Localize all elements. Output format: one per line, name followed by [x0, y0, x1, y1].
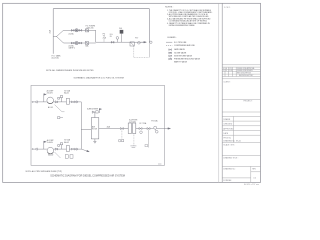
- valve right chain 2: [147, 128, 154, 130]
- label filter right: [140, 122, 148, 125]
- gauge G1: [138, 42, 141, 45]
- svg-text:PRESSURE REDUCING VALVE: PRESSURE REDUCING VALVE: [174, 58, 201, 61]
- relief valve top chain: [58, 96, 63, 102]
- page border frame: [3, 3, 261, 182]
- arrow to engine: [140, 41, 146, 43]
- tick at frame left bottom: [158, 163, 161, 165]
- title block approvals rows: [222, 112, 260, 143]
- title block sheet label: [224, 7, 231, 9]
- footer print note: [244, 183, 259, 186]
- dryer drain funnel: [130, 146, 136, 147]
- label relief top: [64, 89, 71, 94]
- strainer S2 chain2: [85, 42, 88, 45]
- gauge right chain: [154, 126, 165, 133]
- legend symbol check valve: [169, 55, 172, 57]
- svg-text:NON RETURN VALVE: NON RETURN VALVE: [174, 54, 193, 57]
- label AC2: [47, 139, 55, 144]
- svg-text:REVISION HISTORY: REVISION HISTORY: [239, 75, 253, 77]
- header vertical schematic 2: [80, 102, 82, 149]
- svg-text:0.0: 0.0: [253, 178, 256, 180]
- legend block: [167, 37, 200, 63]
- svg-text:NOTES :: NOTES :: [165, 6, 173, 8]
- label from tank vertical: [48, 29, 51, 33]
- svg-text:F.O. PIPE LINE: F.O. PIPE LINE: [174, 42, 187, 44]
- valve top chain right: [69, 101, 81, 103]
- svg-text:CLIENT :: CLIENT :: [223, 81, 231, 83]
- svg-text:A.RECEIVER: A.RECEIVER: [87, 107, 99, 110]
- legend symbol gate valve: [169, 49, 172, 51]
- legend symbol globe valve: [169, 52, 172, 54]
- dryer top chain: [58, 98, 70, 104]
- svg-text:PG 30A: PG 30A: [151, 119, 158, 122]
- svg-text:DATE: DATE: [223, 132, 228, 135]
- outlet line right chain: [99, 128, 121, 130]
- branch to tank: [81, 128, 91, 130]
- svg-text:2x100%: 2x100%: [47, 142, 54, 144]
- intake bottom chain: [32, 148, 47, 150]
- drain diagonal bottom chain: [55, 152, 61, 158]
- chain 1 line: [64, 30, 96, 42]
- label tank top: [87, 107, 99, 110]
- svg-text:RCVR: RCVR: [92, 129, 98, 131]
- label chain1 left: [68, 32, 74, 35]
- svg-text:DRAWING No: DRAWING No: [223, 139, 234, 142]
- svg-text:SAFETY VALVE: SAFETY VALVE: [174, 61, 188, 64]
- drain arrow after junction: [81, 149, 89, 152]
- svg-text:SK-01: SK-01: [236, 140, 241, 142]
- caption schematic 2: [50, 174, 125, 177]
- valve V4 chain2: [79, 42, 82, 44]
- svg-text:2x100%: 2x100%: [47, 93, 54, 95]
- trap below valve: [121, 130, 123, 139]
- title block left boundary: [218, 3, 220, 182]
- dryer drain dashed: [133, 134, 135, 146]
- note text schematic 2: [26, 170, 63, 173]
- notes block: [165, 6, 213, 26]
- label compressor C1: [48, 106, 53, 109]
- valve V3 chain2: [71, 42, 74, 44]
- flag node engine: [150, 41, 152, 43]
- relief valve bottom chain: [58, 143, 63, 149]
- svg-text:CHECKED: CHECKED: [223, 124, 232, 126]
- svg-text:2x25A: 2x25A: [68, 32, 74, 35]
- svg-text:FORM A3: FORM A3: [223, 179, 231, 182]
- frame schematic 2: [31, 85, 165, 165]
- strainer S1 chain1: [85, 29, 88, 32]
- check valve top chain: [54, 101, 58, 103]
- svg-text:NOTE: ALL PIPE SIZES ARE IN MM: NOTE: ALL PIPE SIZES ARE IN MM (TYP): [26, 170, 63, 173]
- filter F1 on line: [130, 42, 134, 46]
- svg-text:AD-01: AD-01: [64, 92, 69, 95]
- svg-text:SCALE : NTS: SCALE : NTS: [223, 144, 235, 147]
- title block scale cell: [222, 142, 260, 144]
- title block client cell: [222, 78, 260, 80]
- dashed drain line bottom left: [145, 130, 149, 148]
- legend symbol relief valve: [169, 58, 172, 60]
- tank drain: [94, 139, 97, 143]
- compressor C1: [47, 97, 54, 104]
- tank top assembly: [92, 108, 101, 117]
- label pumps chain1: [86, 26, 96, 30]
- flag bottom chain: [44, 141, 46, 149]
- chain 2 main line: [64, 41, 147, 44]
- label F.O.T.: [52, 54, 62, 59]
- svg-text:12.1: 12.1: [229, 68, 232, 70]
- valve V2 chain1: [79, 29, 82, 31]
- pipe return line top: [53, 9, 149, 43]
- title block inner boundary: [221, 3, 223, 182]
- svg-text:AC-02: AC-02: [48, 154, 53, 157]
- svg-text:DRAWING TITLE :: DRAWING TITLE :: [223, 156, 238, 159]
- svg-text:GATE V.: GATE V.: [68, 46, 75, 49]
- label outlet: [107, 125, 111, 128]
- gauge labels leaders: [103, 39, 105, 42]
- label DG: [119, 28, 123, 30]
- title block revision table: [222, 65, 260, 77]
- svg-text:SCHEMATIC DIAGRAM FOR DIESEL C: SCHEMATIC DIAGRAM FOR DIESEL COMPRESSED …: [50, 174, 125, 177]
- sensing line vertical: [148, 42, 150, 57]
- svg-text:1: 1: [223, 70, 224, 72]
- svg-text:AD-02: AD-02: [64, 141, 69, 144]
- check valve bottom chain: [54, 148, 58, 150]
- instrument FM1: [116, 37, 119, 43]
- label gauges stack: [103, 34, 107, 40]
- label chain2 below: [68, 44, 89, 49]
- branch Y from header: [53, 30, 63, 43]
- svg-text:NOTE: ALL DIMENSIONS ARE IN MM: NOTE: ALL DIMENSIONS ARE IN MM UNLESS NO…: [46, 69, 94, 72]
- drain marks top chain: [58, 117, 64, 119]
- DG set dark box: [120, 30, 124, 42]
- svg-text:1.02: 1.02: [229, 70, 232, 72]
- valve V5 main: [111, 41, 114, 43]
- traps below bottom chain: [65, 155, 73, 159]
- flag top chain: [44, 94, 46, 102]
- valve V1 chain1: [71, 29, 74, 31]
- dashed sensing line: [134, 46, 150, 57]
- svg-text:ISSUED FOR REVIEW: ISSUED FOR REVIEW: [237, 70, 253, 72]
- svg-text:GATE VALVE: GATE VALVE: [174, 48, 186, 51]
- svg-text:GLOBE VALVE: GLOBE VALVE: [174, 51, 187, 54]
- svg-text:DRAWN: DRAWN: [223, 118, 230, 121]
- air dryer towers: [123, 123, 139, 134]
- svg-text:A3 420 x 297 mm: A3 420 x 297 mm: [244, 183, 259, 186]
- svg-text:AC-01: AC-01: [48, 106, 53, 109]
- drain diagonal top chain: [55, 105, 65, 112]
- svg-text:FLT 25A: FLT 25A: [140, 122, 148, 125]
- svg-text:1 OF 1: 1 OF 1: [224, 7, 231, 9]
- svg-text:COMPRESSED AIR LINE: COMPRESSED AIR LINE: [174, 44, 195, 47]
- svg-text:0: 0: [223, 68, 224, 70]
- compressor C2: [47, 147, 54, 154]
- pump P2 chain2: [75, 42, 78, 45]
- pipe suction header: [52, 9, 54, 54]
- title block drawing title cell: [222, 155, 260, 157]
- valve bottom chain right: [69, 148, 81, 150]
- legend symbol solid line: [166, 41, 172, 43]
- label pair before valve: [110, 34, 113, 38]
- svg-text:DETAIL ENGINEERING STAGE.: DETAIL ENGINEERING STAGE.: [169, 24, 196, 27]
- title block drawing no cell: [222, 166, 260, 182]
- label relief bottom: [64, 139, 71, 144]
- trap assembly: [118, 139, 124, 142]
- paper background: [0, 0, 265, 187]
- dryer bottom chain: [58, 146, 70, 152]
- pump P1 chain1: [75, 29, 78, 32]
- intake top chain: [32, 101, 47, 103]
- label gauge: [151, 119, 158, 122]
- filter right chain: [139, 128, 147, 134]
- svg-text:1x100%: 1x100%: [129, 121, 136, 123]
- exit arrow right chain: [165, 128, 171, 130]
- svg-text:APPROVED: APPROVED: [223, 127, 234, 130]
- svg-text:DRAWING No :: DRAWING No :: [223, 167, 236, 170]
- valve right chain 1: [120, 128, 123, 130]
- label air receiver: [92, 126, 98, 131]
- svg-text:SCHEMATIC DIAGRAM FOR D.G. FUE: SCHEMATIC DIAGRAM FOR D.G. FUEL OIL SYST…: [74, 76, 124, 79]
- svg-text:PROJECT :: PROJECT :: [244, 101, 254, 103]
- svg-text:REV DESCRIPTION: REV DESCRIPTION: [237, 73, 251, 75]
- label compressor C2: [48, 154, 53, 157]
- svg-text:B: B: [226, 70, 227, 72]
- legend symbol dashed line: [166, 44, 172, 46]
- label filter: [135, 37, 139, 39]
- caption schematic 1: [74, 76, 124, 79]
- air receiver tank: [91, 118, 99, 139]
- label AC1: [47, 90, 55, 95]
- svg-text:LEGEND :: LEGEND :: [167, 37, 177, 39]
- svg-text:(1x2m3): (1x2m3): [52, 58, 59, 60]
- note text schematic 1: [46, 69, 94, 72]
- label dryer: [129, 119, 138, 124]
- title block project row: [222, 99, 260, 101]
